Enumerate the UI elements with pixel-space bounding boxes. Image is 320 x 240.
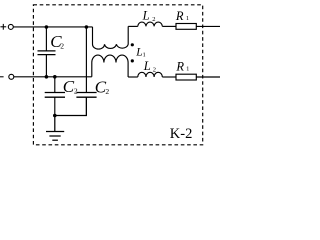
wire: top output to edge [196, 25, 220, 27]
node: bottom of C2 (first cap) [45, 75, 49, 79]
node: top of C2 (first cap) [45, 25, 49, 29]
wire: top rail from + terminal to upper winding [13, 26, 92, 28]
svg-text:1: 1 [186, 15, 189, 22]
wire: upper branch from winding to L2 [128, 25, 138, 27]
svg-text:1: 1 [186, 66, 189, 73]
label C2 (first cap) [50, 32, 64, 51]
svg-text:1: 1 [143, 52, 146, 59]
inductor L1 upper winding (coupled) [93, 26, 129, 49]
inductor L1 lower winding (coupled) [92, 55, 128, 77]
svg-text:L: L [143, 59, 151, 73]
capacitor C2 (first, between rails) [38, 27, 56, 77]
node: ground junction [53, 114, 57, 118]
dashed enclosure box [33, 5, 202, 145]
svg-text:R: R [175, 9, 184, 23]
terminal circle (- input) [9, 74, 14, 79]
capacitor C2 (third, lower right shunt) [76, 93, 96, 116]
svg-text:2: 2 [74, 86, 78, 95]
label R1 (top) [175, 9, 189, 23]
ground [46, 116, 64, 141]
node: top of vertical wire to C2 (third cap) [85, 25, 89, 29]
polarity dot (lower winding) [131, 59, 134, 62]
wire: top L2 to R1 [162, 25, 176, 27]
label L2 (top) [142, 9, 156, 23]
label C2 (second cap) [63, 77, 78, 96]
polarity dot (upper winding) [131, 43, 134, 46]
svg-text:K-2: K-2 [170, 126, 193, 142]
plus sign (input polarity) [0, 24, 6, 30]
terminal circle (+ input) [8, 24, 13, 29]
label L1 [135, 46, 145, 58]
svg-text:L: L [142, 9, 150, 23]
capacitor C2 (second, lower left shunt) [45, 77, 65, 116]
wire: bottom L2 to R1 [162, 76, 176, 78]
wire: bottom link from second cap to third cap [55, 97, 87, 115]
minus sign (input polarity) [0, 76, 4, 78]
svg-text:2: 2 [152, 16, 155, 23]
label R1 (bottom) [175, 60, 189, 74]
label L2 (bottom) [143, 59, 156, 73]
wire: lower branch from winding to L2 [128, 76, 138, 78]
inductor L2 (bottom) [138, 72, 163, 77]
wire: bottom output to edge [196, 76, 220, 78]
svg-text:2: 2 [60, 42, 64, 51]
svg-text:R: R [175, 60, 184, 74]
svg-text:2: 2 [153, 66, 156, 73]
node: top of C2 (second cap) [53, 75, 57, 79]
wire: vertical from top rail down to third cap [85, 27, 87, 93]
resistor R1 (bottom) [176, 74, 196, 80]
wire: bottom rail from - terminal to lower winding [14, 76, 92, 78]
resistor R1 (top) [176, 24, 196, 30]
inductor L2 (top) [138, 22, 163, 26]
svg-text:2: 2 [105, 87, 109, 96]
label C2 (third cap) [95, 77, 110, 96]
